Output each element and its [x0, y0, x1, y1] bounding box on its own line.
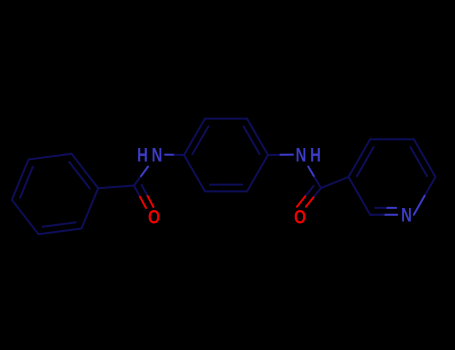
pyridine ring	[349, 139, 436, 214]
left amide C=O double bond	[134, 185, 153, 208]
left amide oxygen O	[148, 206, 160, 228]
bond: right amide N - carbonyl C	[308, 167, 321, 189]
svg-text:N: N	[296, 145, 307, 166]
pyridine nitrogen N	[401, 205, 412, 226]
right amide C=O double bond	[297, 186, 321, 207]
svg-text:H: H	[310, 145, 321, 166]
bond: left amide N - central ring	[165, 154, 184, 156]
right amide label NH	[296, 145, 321, 166]
svg-text:O: O	[148, 206, 160, 228]
right amide oxygen O	[294, 206, 306, 228]
benzene ring of benzoyl group	[12, 154, 98, 234]
svg-text:N: N	[401, 205, 412, 226]
left amide label HN	[137, 145, 162, 166]
bond: phenyl C1 - left carbonyl C	[98, 186, 134, 189]
svg-text:O: O	[294, 206, 306, 228]
central benzene ring (p-phenylene)	[184, 119, 268, 192]
bond: left carbonyl C - amide N	[134, 167, 148, 186]
bond: central ring - right amide N	[268, 154, 293, 156]
bond: right carbonyl C - pyridine C3	[321, 177, 349, 188]
svg-text:H: H	[137, 145, 148, 166]
svg-text:N: N	[152, 145, 163, 166]
